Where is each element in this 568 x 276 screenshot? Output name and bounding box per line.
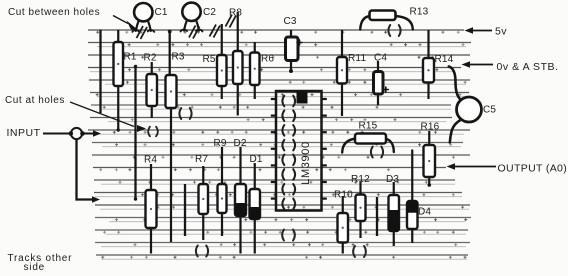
diode D4 (407, 150, 432, 244)
resistor R12 (351, 174, 370, 238)
note: Cut between holes label (8, 7, 138, 30)
wire left vertical (x=100) (99, 30, 101, 114)
svg-text:R2: R2 (144, 53, 157, 64)
svg-text:D2: D2 (234, 138, 247, 149)
svg-text:R3: R3 (172, 52, 185, 63)
track cut at hole (Cut-at-holes target) (148, 127, 150, 137)
svg-text:R4: R4 (144, 155, 157, 166)
svg-text:Cut at holes: Cut at holes (5, 95, 65, 106)
node 5v (465, 26, 508, 38)
svg-text:C5: C5 (483, 105, 496, 116)
track cut under R15 (371, 147, 373, 158)
svg-text:R14: R14 (435, 54, 454, 65)
svg-text:D3: D3 (386, 174, 399, 185)
capacitor C5 (449, 67, 497, 143)
resistor R2 (144, 53, 158, 119)
note: Tracks other side label (8, 253, 73, 273)
svg-text:D1: D1 (250, 154, 263, 165)
svg-text:R5: R5 (203, 54, 216, 65)
resistor R16 (421, 122, 440, 186)
svg-text:side: side (24, 262, 46, 271)
svg-text:D4: D4 (418, 207, 431, 218)
svg-text:C4: C4 (374, 53, 387, 64)
op-amp U1 LM3900 (271, 91, 327, 211)
capacitor C4 (374, 53, 389, 106)
svg-text:R15: R15 (359, 121, 378, 132)
wire link (x=135) (134, 65, 137, 201)
svg-text:LM3900: LM3900 (300, 141, 312, 184)
resistor R3 (166, 52, 185, 243)
node 0v & A STB (462, 61, 559, 73)
track cut slashes at R8 lead (226, 15, 233, 27)
diode D3 (386, 174, 399, 246)
capacitor C1 (132, 3, 168, 32)
junction dot R1 lead (117, 128, 120, 131)
resistor R4 (144, 155, 157, 254)
svg-text:R6: R6 (261, 54, 274, 65)
svg-text:R13: R13 (410, 7, 429, 18)
resistor R1 (114, 30, 137, 131)
node OUTPUT (A0) (447, 163, 568, 175)
track cut under R13 (388, 25, 390, 36)
svg-text:Cut between holes: Cut between holes (8, 7, 100, 18)
capacitor C2 (181, 3, 217, 32)
wire link (x=185) (184, 184, 186, 236)
note: Cut at holes label (5, 95, 146, 132)
resistor R5 (203, 24, 227, 99)
svg-text:0v & A STB.: 0v & A STB. (497, 61, 559, 73)
track cut slashes below C1 (137, 26, 144, 38)
track cut below IC (282, 230, 284, 241)
resistor R13 (360, 7, 428, 30)
svg-text:C1: C1 (155, 7, 168, 18)
stripboard tracks (88, 30, 471, 259)
wire R3 top lead (168, 30, 172, 76)
svg-text:R11: R11 (348, 53, 366, 64)
svg-text:R10: R10 (334, 190, 353, 201)
wire from input loop down and into board (77, 139, 101, 203)
svg-text:C2: C2 (203, 7, 216, 18)
resistor R14 (423, 30, 454, 99)
resistor R6 (250, 42, 274, 99)
track cut bottom left (196, 246, 198, 257)
svg-text:OUTPUT (A0): OUTPUT (A0) (498, 163, 568, 175)
resistor R9 (214, 138, 227, 236)
svg-text:R9: R9 (214, 138, 227, 149)
capacitor C3 (284, 16, 303, 73)
track cut slashes below C2 (189, 26, 196, 38)
diode D2 (234, 138, 247, 254)
svg-text:C3: C3 (284, 16, 297, 27)
wire link (x=377) (376, 197, 378, 236)
track cut bottom middle (353, 246, 355, 257)
svg-text:R7: R7 (195, 154, 208, 165)
svg-text:R16: R16 (421, 122, 440, 133)
node INPUT label and wire (7, 127, 102, 139)
track cut slashes at R5 lead (210, 25, 217, 37)
svg-text:5v: 5v (495, 26, 507, 38)
resistor R10 (334, 190, 353, 254)
svg-text:R12: R12 (351, 174, 370, 185)
svg-text:INPUT: INPUT (7, 127, 41, 139)
svg-text:R1: R1 (124, 52, 137, 63)
junction dot R16 lead (428, 183, 432, 187)
resistor R8 (229, 8, 243, 116)
resistor R7 (195, 154, 208, 240)
diode D1 (249, 154, 263, 254)
resistor R11 (337, 30, 366, 116)
resistor R15 (342, 121, 394, 153)
track cut near R3 (179, 108, 181, 119)
